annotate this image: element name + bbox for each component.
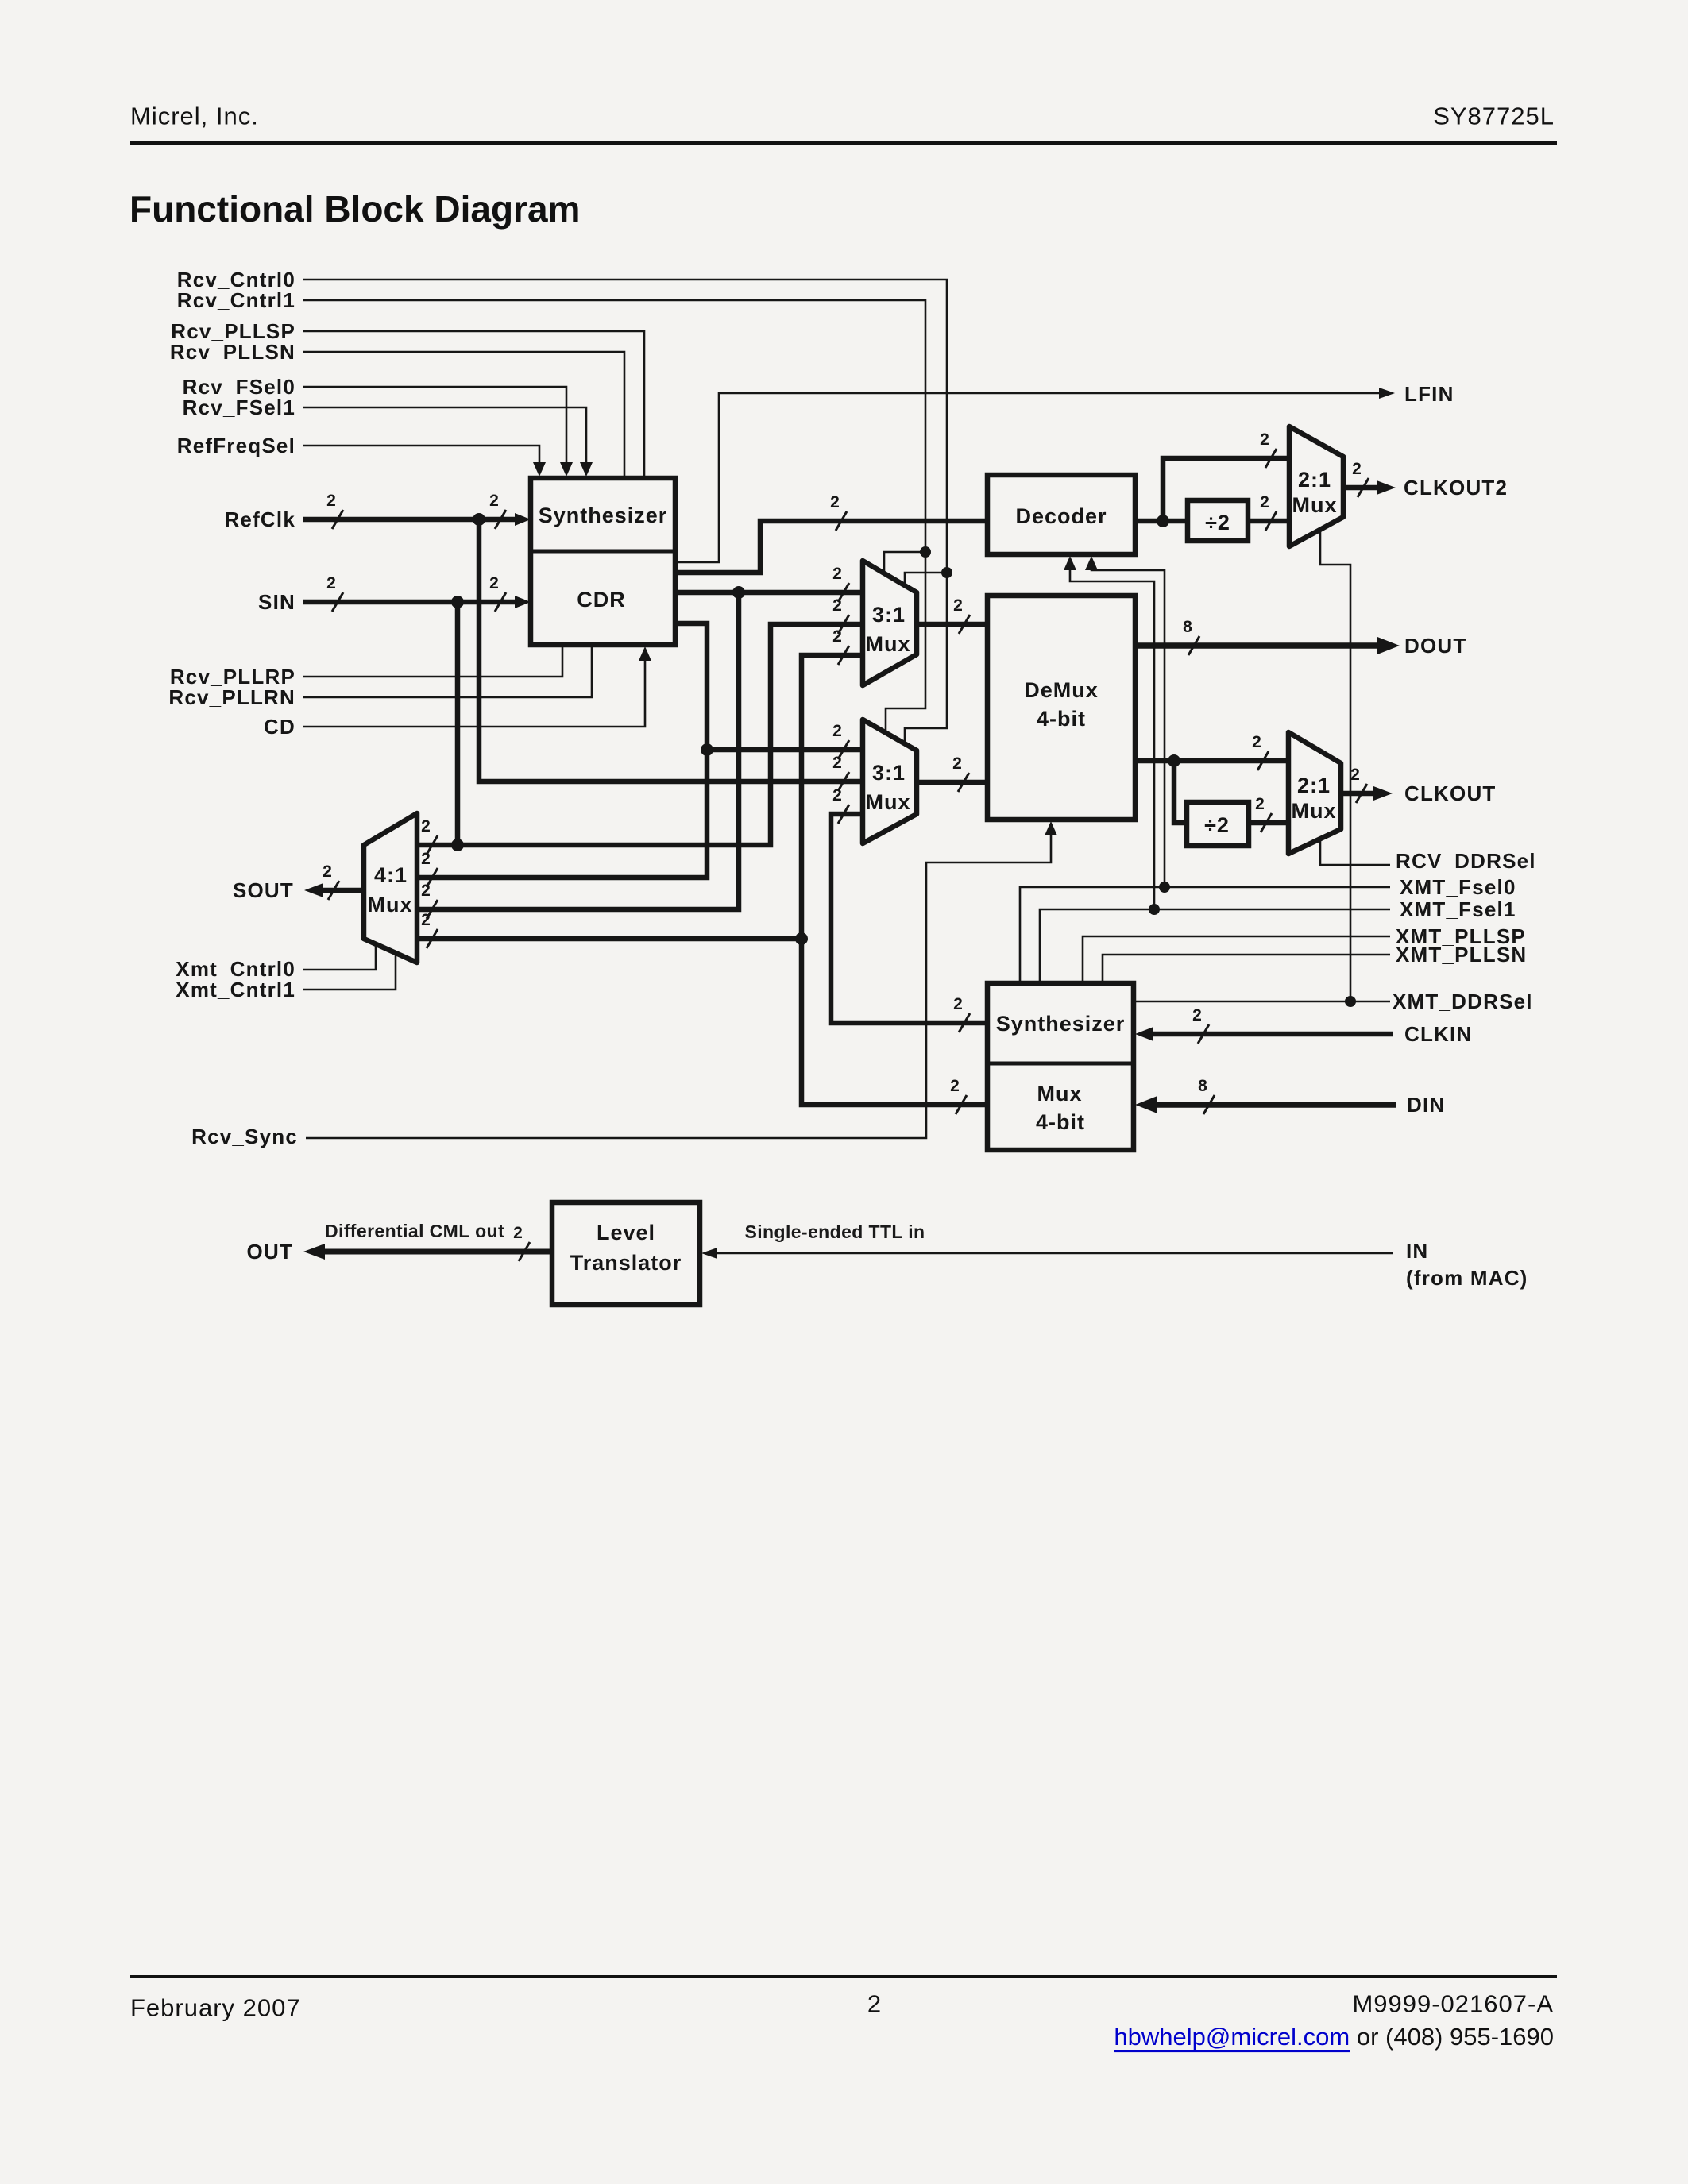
svg-text:2: 2 (953, 995, 963, 1013)
mux 4:1 (SOUT) M5 (364, 813, 417, 963)
junction SIN tap (451, 596, 464, 608)
junction Rcv_Cntrl0 top mux select (941, 567, 952, 578)
wire Rcv_PLLSP into Synthesizer top (303, 331, 644, 478)
svg-text:4-bit: 4-bit (1037, 707, 1086, 731)
mux 3:1 bottom M4 (863, 720, 917, 843)
wire Rcv_PLLRN into CDR bottom (303, 645, 592, 697)
wire divide-by-2 bottom to 2:1 mux bottom input 2 (1249, 820, 1288, 826)
svg-text:Single-ended TTL in: Single-ended TTL in (745, 1221, 925, 1242)
svg-text:OUT: OUT (247, 1240, 293, 1264)
svg-text:8: 8 (1183, 618, 1192, 636)
svg-text:2: 2 (1192, 1006, 1202, 1024)
svg-text:(from MAC): (from MAC) (1406, 1266, 1528, 1290)
wire divide-by-2 top to 2:1 mux top input 2 (1248, 519, 1289, 524)
svg-text:LFIN: LFIN (1404, 382, 1454, 406)
arrowhead Rcv_FSel0 down (560, 462, 573, 477)
svg-text:Mux: Mux (368, 893, 413, 916)
svg-text:2: 2 (421, 911, 431, 929)
svg-text:Rcv_Sync: Rcv_Sync (191, 1125, 298, 1148)
arrowhead XMT_Fsel0 into Decoder (1085, 556, 1098, 570)
wire Xmt_Cntrl0 to 4:1 mux select (303, 945, 376, 970)
mux 2:1 top (CLKOUT2) M1 (1289, 426, 1343, 546)
arrowhead XMT_Fsel1 into Decoder (1064, 556, 1076, 570)
wire bottom 3:1 mux output to DeMux (917, 780, 987, 785)
svg-text:Mux: Mux (1292, 493, 1338, 517)
wire CLKOUT output (1341, 791, 1376, 797)
svg-text:2: 2 (421, 817, 431, 835)
arrowhead Rcv_Sync into DeMux (1045, 821, 1057, 835)
wire RefClk into Synthesizer (303, 517, 524, 523)
svg-text:XMT_DDRSel: XMT_DDRSel (1393, 990, 1533, 1013)
mux 3:1 top M3 (863, 561, 917, 685)
svg-text:2: 2 (832, 627, 842, 646)
svg-text:2: 2 (832, 565, 842, 583)
svg-text:Rcv_PLLRN: Rcv_PLLRN (168, 685, 295, 709)
svg-text:2: 2 (421, 850, 431, 868)
arrowhead DIN into box (1135, 1096, 1157, 1113)
svg-text:2: 2 (953, 596, 963, 615)
svg-text:RefClk: RefClk (224, 507, 295, 531)
arrowhead CD up (639, 646, 651, 661)
wire SOUT output (318, 888, 364, 893)
svg-text:DIN: DIN (1407, 1093, 1445, 1117)
wire Mux 4-bit output riser to 4:1 input 4 and top 3:1 mux input 3 (802, 655, 987, 1105)
svg-text:2: 2 (832, 722, 842, 740)
svg-text:2: 2 (489, 492, 499, 510)
wire XMT_Fsel0 branch up to Decoder select (1091, 569, 1165, 887)
footer rule (130, 1975, 1557, 1978)
wire Decoder output to divide-by-2 top (1135, 519, 1188, 524)
arrowhead LFIN (1379, 388, 1395, 399)
svg-text:DeMux: DeMux (1024, 678, 1099, 702)
svg-text:2:1: 2:1 (1297, 774, 1331, 797)
wire IN into Level Translator (713, 1252, 1393, 1255)
wire 2:1 mux top select from XMT_DDRSel (1320, 529, 1350, 1001)
wire CD into CDR bottom (303, 659, 645, 727)
svg-text:CDR: CDR (577, 588, 626, 612)
junction XMT_Fsel1 branch (1149, 904, 1160, 915)
arrowhead OUT (303, 1244, 325, 1260)
svg-text:Mux: Mux (1037, 1082, 1083, 1106)
junction SIN at 4:1 input 1 (451, 839, 464, 851)
svg-text:2: 2 (326, 574, 336, 592)
arrowhead CLKOUT (1373, 786, 1393, 801)
svg-text:Level: Level (597, 1221, 655, 1244)
svg-text:Functional Block Diagram: Functional Block Diagram (129, 188, 580, 230)
svg-text:2: 2 (1260, 493, 1269, 511)
wire Synthesizer output to Decoder (675, 521, 987, 573)
junction XMT_Fsel0 branch (1159, 882, 1170, 893)
svg-text:2: 2 (1255, 795, 1265, 813)
header rule (130, 141, 1557, 145)
svg-text:DOUT: DOUT (1404, 634, 1466, 658)
arrowhead IN into translator (701, 1248, 717, 1259)
svg-text:Rcv_PLLSN: Rcv_PLLSN (170, 340, 295, 364)
arrowhead DOUT (1377, 637, 1400, 654)
wire Rcv_Cntrl1 stub to top 3:1 mux select (884, 552, 925, 572)
svg-text:2: 2 (1252, 733, 1261, 751)
wire SIN branch down to 4:1 mux input 1 (455, 602, 461, 845)
arrowhead SOUT (304, 883, 323, 897)
svg-text:SIN: SIN (258, 590, 295, 614)
svg-text:÷2: ÷2 (1204, 813, 1230, 837)
svg-text:M9999-021607-A: M9999-021607-A (1352, 1990, 1554, 2018)
svg-text:CLKIN: CLKIN (1404, 1022, 1472, 1046)
wire CDR clock branch to bottom 3:1 mux input 1 (707, 747, 863, 753)
svg-text:Translator: Translator (570, 1251, 682, 1275)
svg-text:Synthesizer: Synthesizer (539, 504, 668, 527)
wire OUT output (318, 1249, 552, 1255)
wire Rcv_Cntrl0 select line (303, 280, 947, 742)
wire Rcv_FSel1 into Synthesizer top (303, 407, 586, 464)
junction RefClk tap (473, 513, 485, 526)
wire XMT_Fsel1 (1040, 909, 1390, 983)
wire 4:1 mux input 1 / riser to top 3:1 mux input 2 (417, 624, 863, 845)
svg-text:2: 2 (1350, 766, 1360, 784)
wire RefFreqSel into Synthesizer top (303, 446, 539, 464)
svg-text:2: 2 (832, 596, 842, 615)
svg-text:RefFreqSel: RefFreqSel (177, 434, 295, 457)
wire DIN input (1149, 1102, 1396, 1108)
block divide-by-2 (top) U3 (1188, 500, 1248, 541)
svg-text:CLKOUT: CLKOUT (1404, 781, 1497, 805)
wire XMT_PLLSN into bottom Synthesizer top (1103, 955, 1390, 983)
wire CDR data output to top 3:1 mux input 1 (675, 590, 863, 596)
wire Decoder output branch to 2:1 mux top input 1 (1163, 458, 1289, 521)
wire DOUT output (1135, 642, 1380, 649)
wire RefClk branch down to bottom 3:1 mux input 2 (479, 519, 863, 781)
svg-text:XMT_Fsel0: XMT_Fsel0 (1400, 875, 1516, 899)
svg-text:3:1: 3:1 (872, 761, 906, 785)
svg-text:2: 2 (952, 754, 962, 773)
block divide-by-2 (bottom) U5 (1187, 802, 1249, 846)
svg-text:2: 2 (832, 754, 842, 772)
wire Rcv_FSel0 into Synthesizer top (303, 387, 566, 464)
svg-text:SOUT: SOUT (233, 878, 294, 902)
wire SIN into CDR (303, 600, 524, 605)
block DeMux 4-bit U4 (987, 596, 1135, 820)
wire Rcv_PLLSN into Synthesizer top (303, 352, 624, 478)
arrowhead RefClk into box (515, 513, 531, 526)
wire bottom Synthesizer output riser to bottom 3:1 mux input 3 (831, 814, 987, 1023)
svg-text:hbwhelp@micrel.com or (408) 95: hbwhelp@micrel.com or (408) 955-1690 (1114, 2023, 1554, 2051)
svg-text:2: 2 (950, 1077, 960, 1095)
svg-text:Mux: Mux (866, 632, 911, 656)
svg-text:CD: CD (264, 715, 295, 739)
svg-text:SY87725L: SY87725L (1433, 102, 1555, 130)
wire Rcv_PLLRP into CDR bottom (303, 645, 562, 677)
bus slash marks (332, 510, 343, 529)
svg-text:4:1: 4:1 (374, 863, 408, 887)
svg-text:2: 2 (489, 574, 499, 592)
wire Rcv_Cntrl0 stub to top 3:1 mux select (905, 573, 947, 585)
svg-text:2: 2 (832, 786, 842, 805)
svg-text:2: 2 (421, 882, 431, 900)
block Level Translator U7 (552, 1202, 700, 1305)
wire top 3:1 mux output to DeMux (917, 622, 987, 627)
svg-text:2: 2 (1260, 430, 1269, 449)
wire CLKOUT2 output (1343, 485, 1379, 491)
svg-text:Mux: Mux (866, 790, 911, 814)
junction Mux4bit net at 4:1 input 4 (795, 932, 808, 945)
wire Xmt_Cntrl1 to 4:1 mux select (303, 954, 396, 990)
arrowhead Rcv_FSel1 down (580, 462, 593, 477)
svg-text:RCV_DDRSel: RCV_DDRSel (1396, 849, 1536, 873)
svg-text:Xmt_Cntrl1: Xmt_Cntrl1 (176, 978, 295, 1001)
svg-text:IN: IN (1406, 1239, 1428, 1263)
svg-text:÷2: ÷2 (1205, 511, 1230, 534)
svg-text:2: 2 (867, 1990, 882, 2018)
arrowhead CLKOUT2 (1377, 480, 1396, 495)
svg-text:Micrel, Inc.: Micrel, Inc. (130, 102, 259, 130)
wire Rcv_Cntrl1 select line (303, 300, 925, 731)
block Synthesizer/Mux 4-bit U6 (987, 983, 1134, 1150)
wire Rcv_Sync to DeMux bottom (306, 834, 1051, 1138)
junction DeMux clock branch (1168, 754, 1180, 767)
svg-text:XMT_Fsel1: XMT_Fsel1 (1400, 897, 1516, 921)
svg-text:CLKOUT2: CLKOUT2 (1404, 476, 1508, 500)
junction XMT_DDRSel branch (1345, 996, 1356, 1007)
svg-text:2: 2 (323, 862, 332, 881)
svg-text:2: 2 (513, 1224, 523, 1242)
svg-text:Synthesizer: Synthesizer (996, 1012, 1126, 1036)
arrowhead SIN into box (515, 596, 531, 608)
junction CDR clock branch (701, 743, 713, 756)
wire XMT_Fsel0 (1020, 887, 1390, 983)
svg-text:Decoder: Decoder (1015, 504, 1107, 528)
svg-text:Rcv_Cntrl1: Rcv_Cntrl1 (177, 288, 295, 312)
wire LFIN from CDR (675, 393, 1380, 562)
arrowhead RefFreqSel down (533, 462, 546, 477)
block Decoder U2 (987, 475, 1135, 554)
mux 2:1 bottom (CLKOUT) M2 (1288, 732, 1341, 854)
wire XMT_Fsel1 branch up to Decoder select (1070, 569, 1154, 909)
svg-text:2: 2 (1352, 460, 1362, 478)
svg-text:2:1: 2:1 (1298, 468, 1331, 492)
svg-text:2: 2 (326, 492, 336, 510)
wire 2:1 mux bottom select to RCV_DDRSel (1320, 839, 1390, 865)
junction Rcv_Cntrl1 top mux select (920, 546, 931, 558)
junction Decoder output branch (1157, 515, 1169, 527)
svg-text:8: 8 (1198, 1077, 1207, 1095)
arrowhead CLKIN into box (1135, 1027, 1153, 1041)
svg-text:2: 2 (830, 493, 840, 511)
wire XMT_PLLSP into bottom Synthesizer top (1083, 936, 1390, 983)
svg-text:Mux: Mux (1292, 799, 1337, 823)
svg-text:Rcv_FSel1: Rcv_FSel1 (183, 396, 295, 419)
svg-text:3:1: 3:1 (872, 603, 906, 627)
wire 4:1 mux input 4 (417, 936, 802, 942)
junction CDR data branch (732, 586, 745, 599)
wire CDR clock output riser (417, 623, 707, 878)
block Synthesizer/CDR U1 (531, 478, 675, 645)
svg-text:Differential CML out: Differential CML out (325, 1221, 504, 1241)
svg-text:February 2007: February 2007 (130, 1994, 301, 2022)
wire DeMux clock output to 2:1 mux bottom input 1 (1135, 758, 1288, 764)
wire XMT_DDRSel (1134, 1001, 1390, 1003)
svg-text:XMT_PLLSN: XMT_PLLSN (1396, 943, 1527, 967)
wire DeMux clock branch to divide-by-2 bottom (1174, 761, 1187, 823)
wire CDR data branch down to 4:1 mux input 3 (417, 592, 739, 909)
svg-text:4-bit: 4-bit (1036, 1110, 1085, 1134)
wire CLKIN input (1146, 1032, 1393, 1037)
